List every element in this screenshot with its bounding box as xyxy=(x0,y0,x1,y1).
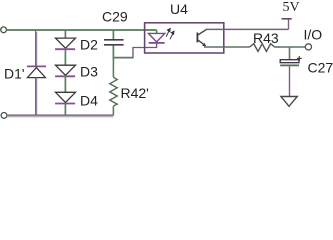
wire from node to opto LED cathode xyxy=(113,57,133,59)
svg-text:R43: R43 xyxy=(253,30,279,46)
svg-text:D1': D1' xyxy=(4,65,25,81)
wire top rail xyxy=(6,29,156,31)
resistor R43 xyxy=(250,44,275,52)
svg-text:I/O: I/O xyxy=(304,26,323,42)
svg-text:R42': R42' xyxy=(121,85,149,101)
wire emitter row xyxy=(204,46,250,48)
svg-text:D3: D3 xyxy=(80,64,98,80)
svg-text:D4: D4 xyxy=(80,93,98,109)
U4 light arrows xyxy=(166,29,174,40)
wire C27 to ground xyxy=(289,65,291,96)
wire R43 to I/O xyxy=(274,46,305,48)
svg-text:D2: D2 xyxy=(80,37,98,53)
U4 LED xyxy=(148,30,164,43)
diode D4 xyxy=(55,92,75,115)
svg-text:C29: C29 xyxy=(102,8,128,24)
svg-text:C27: C27 xyxy=(308,59,333,75)
U4 phototransistor xyxy=(197,29,206,46)
diode D1' xyxy=(27,30,46,115)
terminal (top-left input) xyxy=(1,27,7,33)
wire collector to 5V xyxy=(206,28,289,30)
svg-text:5V: 5V xyxy=(283,0,300,15)
terminal (bottom-left input) xyxy=(1,113,7,119)
wire bottom rail xyxy=(7,114,114,116)
power 5V xyxy=(282,19,292,30)
resistor R42' xyxy=(110,58,117,116)
terminal I/O xyxy=(305,44,311,50)
svg-text:U4: U4 xyxy=(170,1,188,17)
ground xyxy=(281,97,297,107)
optocoupler U4 box xyxy=(145,23,224,53)
capacitor C29 xyxy=(104,30,124,59)
capacitor C27 (polarized) xyxy=(280,47,302,66)
diode D3 xyxy=(55,65,75,92)
diode D2 xyxy=(55,30,75,65)
